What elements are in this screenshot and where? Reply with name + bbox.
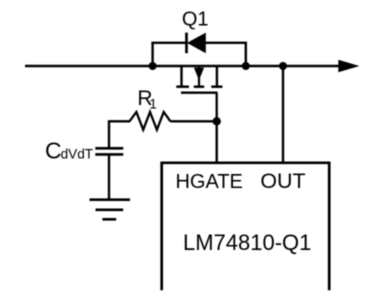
capacitor CdVdT: bottom plate: [95, 153, 123, 156]
transistor Q1: MOSFET drain stub: [180, 66, 182, 86]
transistor Q1: drain contact bar: [176, 85, 189, 88]
transistor Q1: gate plate line: [181, 92, 218, 94]
wire: diode branch horizontal left segment: [151, 42, 187, 44]
IC U1: LM74810-Q1 box (top, left, right edges): [162, 163, 330, 290]
transistor Q1: body contact bar: [194, 85, 204, 88]
diode: body diode of Q1, triangle: [187, 33, 206, 54]
wire: diode branch horizontal right segment: [205, 42, 248, 44]
node: gate/HGATE junction dot: [213, 117, 221, 125]
transistor Q1: source stub: [216, 66, 218, 86]
ground symbol: [90, 200, 131, 220]
svg-text:HGATE: HGATE: [175, 171, 242, 193]
svg-text:Q1: Q1: [182, 8, 209, 30]
diode: body diode of Q1, cathode bar: [185, 33, 188, 54]
wire: OUT node down to OUT pin: [282, 66, 284, 163]
capacitor CdVdT: top plate: [95, 147, 123, 150]
transistor Q1: source contact bar: [211, 85, 222, 88]
node: junction dot OUT: [279, 62, 287, 70]
svg-text:dVdT: dVdT: [61, 147, 94, 162]
arrow: rail output arrowhead: [338, 60, 359, 73]
wire: diode branch right riser: [245, 43, 247, 66]
svg-text:OUT: OUT: [260, 169, 305, 193]
wire: from capacitor corner to resistor: [109, 121, 130, 148]
wire: gate down to HGATE node: [216, 93, 218, 122]
wire: gate node down to HGATE pin: [215, 121, 217, 163]
transistor Q1: body stub with arrow: [198, 66, 200, 86]
wire: resistor to gate node: [170, 120, 218, 122]
node: junction dot left (diode anode riser to rail): [149, 62, 157, 70]
svg-text:LM74810-Q1: LM74810-Q1: [183, 230, 311, 255]
svg-text:1: 1: [149, 97, 157, 112]
svg-text:C: C: [45, 137, 62, 163]
node: junction dot right (diode cathode riser to rail): [242, 62, 250, 70]
resistor R1 zigzag: [130, 112, 171, 130]
wire: diode branch left riser: [151, 43, 153, 66]
wire: main input rail: [25, 65, 341, 68]
wire: capacitor to ground: [108, 155, 110, 200]
